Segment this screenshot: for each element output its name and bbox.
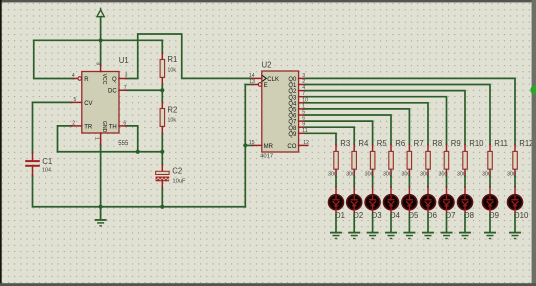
wire D10 to ground [514,215,516,232]
U2 output Q3 pin 7 [299,96,306,98]
svg-text:CLK: CLK [267,77,279,83]
wire node to R2 top [161,90,163,102]
junction MR / E vertical [243,143,247,147]
ground D1 [330,232,342,240]
svg-text:Q4: Q4 [288,101,297,107]
U2 output Q0 pin 3 [299,77,306,79]
resistor R2 [161,102,163,109]
U2 output Q1 pin 2 [299,84,306,86]
U1 pin 1 GND stub [100,133,102,144]
wire Q2 to column 8 [306,91,465,145]
svg-text:1: 1 [93,137,99,140]
junction TH / rail [136,150,140,154]
resistor R10 [464,144,466,151]
U2 pin 12 CO stub [299,144,308,146]
resistor R12 [514,144,516,151]
wire top power rail [34,39,163,41]
ground D6 [422,232,434,240]
svg-text:R8: R8 [432,139,442,148]
wire Q5 to column 5 [306,109,410,144]
junction ground rail / U1 GND [99,205,103,209]
wire E stub link [245,84,252,86]
wire R11 to D9 [489,176,491,187]
ground symbol main rail [95,207,107,227]
svg-text:5: 5 [74,97,77,103]
U2 output Q6 pin 5 [299,114,306,116]
ground D3 [367,232,379,240]
ground D7 [441,232,453,240]
svg-text:8: 8 [94,62,100,65]
svg-text:D10: D10 [514,211,529,220]
LED D4 [390,187,392,194]
LED D1 [335,187,337,194]
wire U1 GND down to ground rail [100,144,102,206]
svg-text:GND: GND [101,121,107,133]
svg-text:Q3: Q3 [288,95,297,101]
LED D8 [464,187,466,194]
power symbol VCC arrow [97,8,104,17]
LED D7 [446,187,448,194]
U1 pin 8 VCC stub [100,65,102,71]
wire TR/TH/C2 rail [58,151,163,153]
wire Q3 to column 7 [306,97,447,145]
svg-text:C1: C1 [42,157,52,166]
svg-text:Q: Q [112,77,117,83]
svg-text:CO: CO [287,144,296,150]
svg-text:E: E [264,83,268,89]
U2 E bubble [258,83,262,87]
wire U1 TH right and down [126,126,138,152]
U1 pin 5 CV stub [71,101,81,103]
junction power rail / VCC [99,38,103,42]
wire C2 top lead [161,152,163,165]
svg-text:10k: 10k [167,117,176,123]
svg-text:Q8: Q8 [288,126,297,132]
U2 output Q7 pin 6 [299,120,306,122]
wire Q0 to column 10 [306,78,515,144]
svg-text:4: 4 [72,73,75,79]
wire U2 E / MR vertical [244,85,246,207]
svg-text:14: 14 [249,73,255,79]
svg-text:Q6: Q6 [288,114,297,120]
wire D1 to ground [335,215,337,232]
wire Q8 to column 2 [306,127,355,144]
ground D9 [484,232,496,240]
LED D10 [514,187,516,194]
svg-text:6: 6 [123,121,126,127]
svg-text:10k: 10k [167,67,176,73]
U1 pin 7 DC stub [119,89,126,91]
LED D3 [372,187,374,194]
wire R12 to D10 [514,176,516,187]
wire R8 to D6 [427,176,429,187]
svg-text:R3: R3 [340,139,350,148]
wire R1 top to power rail [161,40,163,53]
wire D9 to ground [489,215,491,232]
wire R1 bottom to node [161,84,163,90]
svg-text:R9: R9 [451,139,461,148]
junction DC / R1 / R2 [160,88,164,92]
svg-text:7: 7 [124,85,127,91]
svg-text:10uF: 10uF [172,178,186,184]
U2 output Q8 pin 9 [299,126,306,128]
wire Q7 to column 3 [306,121,373,144]
wire U1 CV to C1 [33,102,72,152]
resistor R6 [390,144,392,151]
LED D9 [489,187,491,194]
bright green marker at right edge [530,85,536,95]
svg-text:TR: TR [84,124,93,130]
wire R6 to D4 [390,176,392,187]
svg-text:R6: R6 [395,139,405,148]
wire U1 TR left and down [58,126,72,152]
svg-text:15: 15 [249,140,255,146]
U2 output Q9 pin 11 [299,132,306,134]
wire Q6 to column 4 [306,115,391,144]
resistor R9 [446,144,448,151]
LED D5 [408,187,410,194]
wire R2 bottom to TR/TH rail [161,134,163,152]
wire left rail down to R pin 4 [34,40,73,78]
svg-text:555: 555 [118,141,129,147]
U1 pin 4 R stub + bubble [73,78,78,80]
junction ground rail / C2 [160,205,164,209]
U2 CLK wedge [262,75,267,81]
ground D8 [459,232,471,240]
svg-text:TH: TH [109,124,117,130]
svg-text:Q1: Q1 [288,83,297,89]
resistor R1 [161,53,163,60]
svg-text:R1: R1 [167,55,177,64]
LED D2 [353,187,355,194]
wire R3 to D1 [335,176,337,187]
resistor R4 [353,144,355,151]
wire R5 to D3 [372,176,374,187]
wire R9 to D7 [446,176,448,187]
wire power arrow down to U1 VCC [100,17,102,66]
ground D10 [509,232,521,240]
counter U2 4017 body [262,71,299,152]
LED D6 [427,187,429,194]
svg-text:R11: R11 [494,139,508,148]
U2 pin 13 E stub [253,84,259,86]
svg-text:2: 2 [72,121,75,127]
wire Q4 to column 6 [306,103,428,145]
resistor R7 [408,144,410,151]
svg-text:13: 13 [249,79,255,85]
svg-text:Q9: Q9 [288,132,297,138]
svg-text:U1: U1 [119,56,129,65]
svg-text:VCC: VCC [101,74,107,85]
svg-text:Q2: Q2 [288,89,297,95]
svg-text:MR: MR [264,144,274,150]
U2 output Q2 pin 4 [299,90,306,92]
ground D5 [403,232,415,240]
svg-text:Q0: Q0 [288,77,297,83]
svg-text:U2: U2 [262,61,272,70]
wire D4 to ground [390,215,392,232]
frame borders [0,0,536,2]
wire D5 to ground [408,215,410,232]
svg-text:R12: R12 [519,139,533,148]
U2 output Q5 pin 1 [299,108,306,110]
U2 pin 14 CLK stub [252,77,262,79]
op-amp timer U1 555 body [82,72,119,134]
junction R2 / C2 / rail [160,150,164,154]
wire D7 to ground [446,215,448,232]
capacitor C1 [32,153,34,161]
capacitor C2 electrolytic [161,164,163,171]
svg-text:R: R [84,77,89,83]
U2 pin 15 MR stub [253,144,262,146]
wire Q9 to column 1 [306,133,336,144]
svg-text:12: 12 [303,140,309,146]
svg-text:4017: 4017 [260,154,273,160]
wire C2 bottom to ground rail [161,187,163,206]
U1 pin 6 TH stub [119,125,126,127]
svg-text:CV: CV [84,101,92,107]
svg-text:Q7: Q7 [288,120,297,126]
svg-text:DC: DC [108,89,117,95]
wire U1 DC to R1/R2 node [126,89,162,91]
wire D2 to ground [353,215,355,232]
wire Q1 to column 9 [306,85,490,145]
svg-text:R4: R4 [358,139,369,148]
svg-text:R7: R7 [414,139,424,148]
svg-text:R5: R5 [377,139,388,148]
wire D8 to ground [464,215,466,232]
svg-text:104: 104 [42,168,51,174]
svg-text:R2: R2 [167,105,177,114]
resistor R5 [372,144,374,151]
ground D4 [385,232,397,240]
wire U1 Q to U2 CLK [126,34,252,79]
svg-text:C2: C2 [172,166,182,175]
U1 pin 2 TR stub [71,125,81,127]
wire R10 to D8 [464,176,466,187]
resistor R3 [335,144,337,151]
resistor R8 [427,144,429,151]
wire bottom ground rail [33,176,246,207]
svg-text:R10: R10 [469,139,484,148]
wire D3 to ground [372,215,374,232]
U1 pin 3 Q stub [119,78,126,80]
svg-text:3: 3 [125,73,128,79]
resistor R11 [489,144,491,151]
ground D2 [348,232,360,240]
wire MR stub link [245,144,253,146]
wire R7 to D5 [408,176,410,187]
U2 output Q4 pin 10 [299,102,306,104]
wire R4 to D2 [353,176,355,187]
svg-text:Q5: Q5 [288,108,297,114]
wire D6 to ground [427,215,429,232]
